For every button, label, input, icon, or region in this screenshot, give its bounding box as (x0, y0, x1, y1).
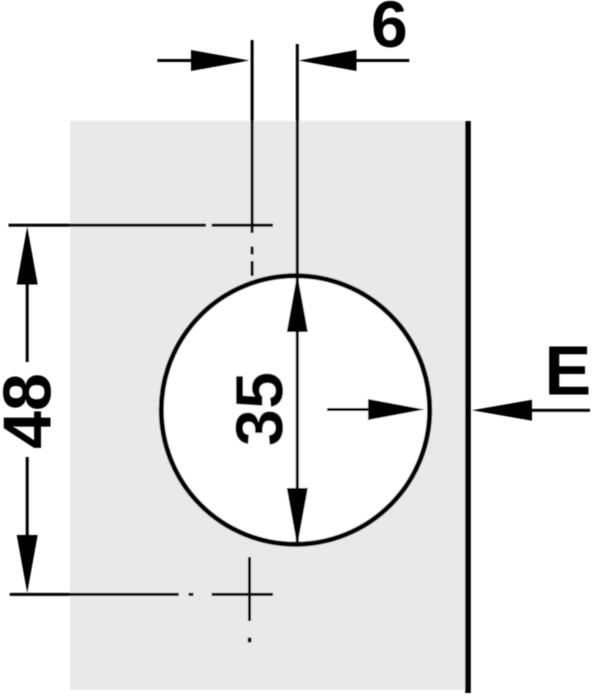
dim 6 left arrow tail (157, 59, 191, 62)
dim 35 down arrowhead (inside circle bottom) (287, 488, 308, 546)
E arrow pointing left at panel edge (472, 400, 532, 421)
dim 35 up arrowhead (inside circle top) (287, 274, 308, 332)
dim 48 bottom extension line dot (189, 593, 194, 596)
dim 6 right arrow tail (357, 59, 410, 62)
panel front edge line (465, 121, 471, 693)
dim 48 up arrowhead (17, 227, 38, 285)
centerline dash-dot below top cross (251, 247, 254, 255)
dim 6 right arrowhead pointing left (299, 50, 357, 71)
svg-text:E: E (545, 332, 592, 410)
dim 48 line upper segment (26, 285, 29, 363)
dim 6 left arrowhead pointing right (191, 50, 249, 71)
centerline dash above circle (251, 261, 254, 276)
svg-text:6: 6 (371, 0, 408, 61)
dim line 35 vertical (also right extension of dim 6) (296, 44, 299, 546)
dim 48 line lower segment (26, 457, 29, 537)
edge distance arrow pointing right (inside circle) (327, 408, 369, 411)
svg-text:35: 35 (223, 372, 298, 447)
panel (door cross-section, gray) (70, 121, 468, 690)
dim 48 top extension line segment A (9, 224, 207, 227)
centerline dash below circle (bottom cross vertical) (248, 557, 251, 621)
centerline dot below bottom cross (248, 638, 252, 643)
dim 48 bottom extension line segment B (212, 593, 273, 596)
dim 48 top extension line segment B (212, 224, 273, 227)
dim 48 bottom extension line segment A (10, 593, 179, 596)
extension line left of dim 6 / upper centerline solid segment (251, 40, 254, 233)
dim 48 down arrowhead (17, 535, 38, 593)
cup hole circle 35mm (161, 276, 429, 544)
svg-text:48: 48 (0, 373, 66, 449)
